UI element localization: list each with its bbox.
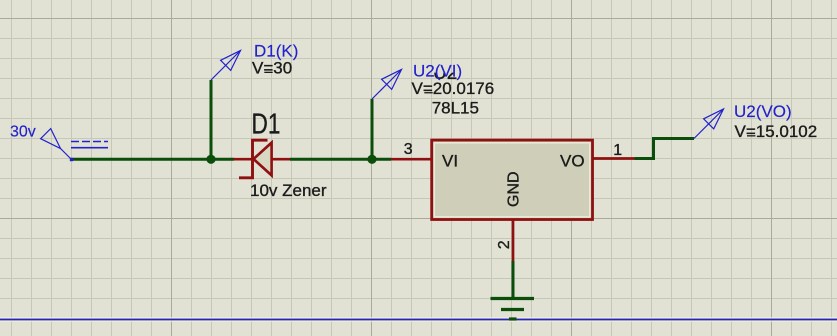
wire from pin 1 to U2(VO) probe [635,139,695,159]
junction B [367,155,376,164]
sheet border bottom line [0,317,837,319]
svg-text:V=20.0176: V=20.0176 [412,79,495,98]
svg-text:D1: D1 [252,107,281,140]
svg-text:2: 2 [496,240,513,249]
generator 30v DC symbol solid line [71,147,108,149]
probe U2(VI) arrow [372,70,402,100]
regulator U2 body [432,140,593,219]
svg-text:U2(VO): U2(VO) [734,102,792,121]
equals bar fragment V=15.0102 [747,135,755,136]
regulator U2 pin 1 lead [593,157,635,160]
svg-text:1: 1 [613,142,622,159]
stray equals bar fragment [424,92,432,93]
probe D1(K) arrow [211,51,241,81]
regulator U2 pin 2 lead [512,220,515,262]
svg-text:U2(VI): U2(VI) [413,61,462,80]
generator 30v arrow [41,129,71,159]
svg-text:V=30: V=30 [252,59,292,78]
svg-text:10v Zener: 10v Zener [250,181,327,200]
probe U2(VO) arrow [694,109,724,139]
junction A [206,155,215,164]
wire vertical to U2(VI) probe [371,99,374,160]
svg-text:VI: VI [442,151,458,170]
wire ground vertical [512,261,515,298]
equals bar fragment V=30 [264,72,272,73]
svg-text:GND: GND [506,171,523,207]
svg-text:3: 3 [404,141,413,158]
wire main horizontal left segment [71,158,234,161]
svg-text:30v: 30v [10,124,36,141]
svg-text:78L15: 78L15 [432,98,479,117]
diode D1 left lead [234,158,253,161]
diode D1 anode triangle [254,143,272,176]
svg-text:VO: VO [560,151,585,170]
generator 30v DC symbol dashed line [71,141,108,143]
diode D1 cathode bar (zener) [239,140,268,178]
wire between diode and junction B [290,158,391,161]
diode D1 right lead [272,158,290,161]
regulator U2 pin 3 lead [391,158,432,161]
ground symbol [491,299,535,320]
generator 30v origin dot [70,158,73,161]
wire vertical to D1(K) probe [210,80,213,160]
svg-text:V=15.0102: V=15.0102 [735,122,818,141]
